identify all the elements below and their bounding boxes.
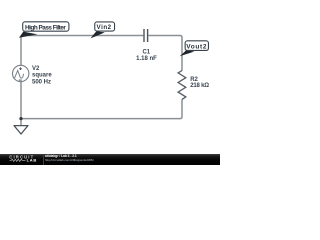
CircuitLab logo [0, 154, 44, 165]
footer watermark bar [0, 154, 220, 166]
junction node dot [19, 117, 22, 120]
svg-text:Vout2: Vout2 [186, 44, 207, 51]
wire right side below resistor [21, 99, 182, 118]
svg-text:High Pass Filter: High Pass Filter [25, 24, 66, 31]
flag box High Pass Filter [23, 22, 69, 31]
footer separator [43, 155, 44, 165]
flag box Vout2 [185, 41, 208, 51]
voltage source minus sign [19, 79, 22, 81]
wire top-left to capacitor [21, 36, 143, 66]
svg-text:1.18 nF: 1.18 nF [136, 56, 157, 62]
flag tail High Pass Filter [19, 31, 38, 37]
wire source bottom to ground junction [20, 82, 22, 126]
voltage source V2 waveform glyph [15, 70, 24, 78]
svg-text:500 Hz: 500 Hz [32, 80, 51, 86]
svg-text:C1: C1 [142, 50, 150, 56]
footer text line 1 [45, 154, 77, 158]
svg-text:Vin2: Vin2 [97, 24, 112, 31]
svg-text:square: square [32, 73, 52, 79]
voltage source V2 circle [13, 65, 29, 81]
wire capacitor to top-right corner and down [148, 36, 182, 71]
resistor R2 zigzag [178, 71, 186, 100]
voltage source plus sign [19, 67, 22, 70]
svg-text:218 kΩ: 218 kΩ [190, 83, 209, 89]
flag tail Vin2 [91, 31, 105, 38]
capacitor C1 plates [144, 29, 148, 42]
svg-text:V2: V2 [32, 66, 40, 72]
flag box Vin2 [95, 22, 115, 31]
footer text line 2 [45, 158, 94, 162]
svg-text:LAB: LAB [27, 157, 37, 162]
ground symbol [14, 126, 28, 134]
flag tail Vout2 [180, 50, 195, 56]
